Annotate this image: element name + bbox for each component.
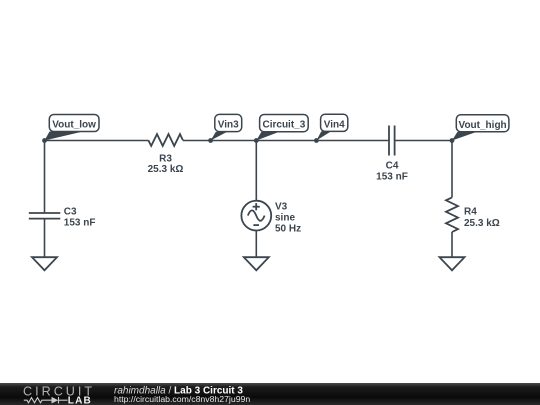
node Vout_high <box>450 115 509 143</box>
capacitor C4 <box>376 126 408 183</box>
svg-text:Vin3: Vin3 <box>218 120 239 131</box>
wire main horizontal left: Vout_low node to R3 <box>45 140 149 142</box>
node Vin3 <box>208 114 241 143</box>
footer bar <box>0 383 540 405</box>
ground (C3) <box>32 257 57 270</box>
voltage source V3 <box>241 201 301 235</box>
node Vout_low <box>42 115 99 143</box>
svg-text:Vin4: Vin4 <box>324 119 345 130</box>
logo resistor-diode line <box>24 397 68 404</box>
svg-text:sine: sine <box>275 213 295 224</box>
ground (R4) <box>440 257 465 270</box>
resistor R4 <box>446 197 500 232</box>
svg-text:LAB: LAB <box>68 395 92 405</box>
svg-text:http://circuitlab.com/c8nv8h27: http://circuitlab.com/c8nv8h27ju99n <box>114 394 250 404</box>
svg-text:Vout_low: Vout_low <box>52 120 96 131</box>
wire vertical left: C3 to ground <box>44 219 46 258</box>
svg-text:50 Hz: 50 Hz <box>275 224 301 235</box>
svg-text:25.3 kΩ: 25.3 kΩ <box>464 218 500 229</box>
wire vertical middle: V3 to ground <box>255 231 257 258</box>
node Circuit_3 <box>254 115 308 143</box>
svg-text:Vout_high: Vout_high <box>459 120 507 131</box>
svg-text:Circuit_3: Circuit_3 <box>263 120 306 131</box>
node Vin4 <box>314 114 348 143</box>
svg-text:R3: R3 <box>159 154 172 165</box>
wire main horizontal middle: R3 to C4 <box>183 140 389 142</box>
wire main horizontal right: C4 to Vout_high node <box>395 140 452 142</box>
svg-text:V3: V3 <box>275 202 288 213</box>
svg-text:153 nF: 153 nF <box>64 218 96 229</box>
svg-text:153 nF: 153 nF <box>376 172 408 183</box>
svg-text:C4: C4 <box>386 161 399 172</box>
svg-text:R4: R4 <box>464 207 477 218</box>
resistor R3 <box>148 134 184 175</box>
svg-text:C3: C3 <box>64 207 77 218</box>
wire vertical right: R4 to ground <box>451 232 453 257</box>
svg-text:25.3 kΩ: 25.3 kΩ <box>148 164 184 175</box>
wire vertical left: Vout_low node down to C3 <box>44 141 46 214</box>
wire vertical middle: Circuit_3 node down to V3 <box>255 141 257 201</box>
wire vertical right: Vout_high node down to R4 <box>451 141 453 198</box>
capacitor C3 <box>29 207 96 229</box>
ground (V3) <box>244 257 269 270</box>
